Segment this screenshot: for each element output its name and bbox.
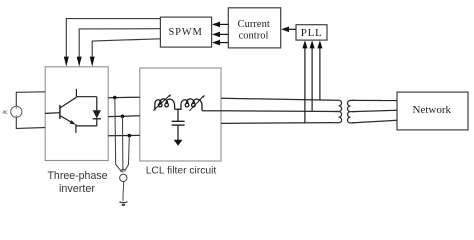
emitter arrowhead <box>70 120 76 125</box>
transformer secondary mid stub <box>350 111 355 113</box>
arrow into PLL 3 <box>317 40 322 48</box>
junction dot A <box>113 96 117 100</box>
inductor L2 <box>181 99 202 111</box>
arrow into inverter 1 <box>64 57 69 67</box>
PLL box <box>296 25 327 40</box>
LCL filter box <box>140 68 221 161</box>
wire current control to SPWM 3 <box>219 42 229 44</box>
wire PLL to current control <box>288 28 297 30</box>
transformer primary winding <box>334 100 341 123</box>
arrowhead 2 <box>212 32 220 38</box>
wire SPWM output 2 <box>79 29 160 58</box>
arrowhead 3 <box>212 40 220 46</box>
wire current control to SPWM 1 <box>219 23 229 25</box>
SPWM box <box>160 17 211 47</box>
svg-text:PLL: PLL <box>301 27 323 39</box>
ac source V1 <box>11 106 22 117</box>
base bar <box>59 105 61 119</box>
base lead <box>45 112 60 115</box>
wire LCL out C <box>221 122 334 125</box>
three-phase inverter box <box>45 67 108 161</box>
current control box <box>228 8 280 48</box>
arrowhead PLL to CC <box>281 27 289 33</box>
wire source bottom <box>16 117 45 128</box>
diode D1 <box>93 97 101 126</box>
wire source top <box>16 92 45 106</box>
wire transformer to network A <box>352 99 397 101</box>
capacitor C1 <box>172 109 185 140</box>
emitter diagonal <box>60 116 73 124</box>
bottom rail <box>76 125 97 127</box>
collector diagonal <box>60 97 76 108</box>
wire tap A down <box>115 98 122 172</box>
emitter stub <box>75 124 77 133</box>
svg-text:Network: Network <box>413 104 452 116</box>
wire transformer to network C <box>352 120 397 123</box>
svg-text:SPWM: SPWM <box>169 27 203 38</box>
wire PLL tap phase A <box>319 46 321 101</box>
arrow into inverter 2 <box>77 57 82 67</box>
top rail <box>76 96 96 98</box>
current sensor loop <box>120 169 127 181</box>
wire SPWM output 3 <box>92 39 160 58</box>
svg-text:Three-phase: Three-phase <box>47 170 107 182</box>
svg-text:inverter: inverter <box>59 183 95 195</box>
filter ground arrow <box>174 140 183 146</box>
wire PLL tap phase B <box>311 46 313 112</box>
transistor Q1 <box>45 89 97 133</box>
collector stub <box>75 89 77 97</box>
arrowhead 1 <box>212 22 220 28</box>
junction dot B <box>121 115 125 119</box>
wire SPWM output 1 <box>66 19 160 58</box>
svg-text:LCL filter circuit: LCL filter circuit <box>146 166 217 177</box>
ground <box>119 202 127 205</box>
wire sensor to ground <box>122 182 125 201</box>
wire L2 to box edge <box>202 110 221 112</box>
junction dot C <box>128 134 132 138</box>
mid connector <box>175 105 181 109</box>
arrow into PLL 2 <box>310 40 315 48</box>
wire tap B down <box>122 116 124 172</box>
wire current control to SPWM 2 <box>219 33 229 35</box>
wire LCL out B <box>221 110 339 113</box>
transformer primary mid stub <box>334 111 339 113</box>
wire inverter output C <box>108 134 140 136</box>
transformer secondary winding <box>347 100 355 123</box>
svg-text:control: control <box>239 31 269 42</box>
wire tap C down <box>125 136 130 172</box>
wire LCL out A <box>221 98 334 100</box>
variable arrow L2 <box>189 96 203 110</box>
arrow into inverter 3 <box>90 57 95 67</box>
svg-text:ac: ac <box>3 110 9 116</box>
svg-text:Current: Current <box>238 19 270 30</box>
wire inverter output A <box>108 96 140 99</box>
wire transformer to network B <box>352 110 397 111</box>
network box <box>397 92 468 130</box>
inductor L1 <box>155 99 175 111</box>
arrow into PLL 1 <box>302 40 307 48</box>
wire PLL tap phase C <box>304 46 306 123</box>
wire inverter output B <box>108 115 140 118</box>
variable arrow L1 <box>153 96 169 111</box>
